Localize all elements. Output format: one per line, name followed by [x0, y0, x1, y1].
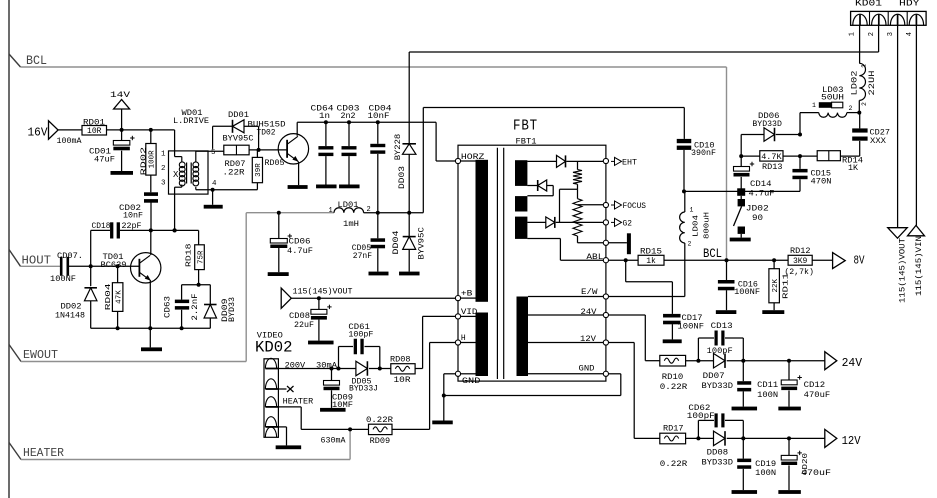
svg-text:RD11: RD11 — [782, 272, 790, 299]
svg-text:2: 2 — [688, 240, 692, 247]
svg-text:47K: 47K — [115, 290, 123, 304]
svg-text:2: 2 — [861, 102, 868, 106]
svg-text:2: 2 — [849, 105, 853, 112]
svg-text:HOUT: HOUT — [22, 254, 52, 268]
svg-text:100R: 100R — [149, 150, 157, 169]
svg-text:1: 1 — [690, 207, 694, 214]
svg-text:RD05: RD05 — [265, 159, 285, 168]
svg-text:RD13: RD13 — [762, 163, 783, 172]
svg-text:CD19: CD19 — [755, 460, 776, 469]
svg-text:4.7uF: 4.7uF — [287, 247, 313, 256]
svg-text:CD06: CD06 — [289, 238, 311, 247]
svg-text:CD11: CD11 — [757, 381, 778, 390]
svg-text:12V: 12V — [842, 435, 861, 448]
svg-text:16V: 16V — [28, 127, 48, 140]
svg-text:470N: 470N — [811, 178, 832, 187]
svg-text:RD02: RD02 — [140, 147, 148, 176]
svg-text:100NF: 100NF — [50, 275, 76, 284]
svg-text:RD15: RD15 — [640, 248, 662, 257]
svg-text:RD10: RD10 — [662, 373, 684, 382]
svg-text:115(145)VOUT: 115(145)VOUT — [898, 238, 908, 303]
svg-text:24V: 24V — [581, 308, 597, 317]
svg-text:22pF: 22pF — [122, 222, 142, 231]
svg-text:BYD33D: BYD33D — [752, 120, 782, 129]
svg-text:HEATER: HEATER — [23, 446, 64, 460]
svg-text:JD02: JD02 — [746, 205, 769, 214]
svg-text:H: H — [461, 334, 466, 343]
svg-text:RD04: RD04 — [105, 283, 113, 311]
svg-text:5: 5 — [211, 149, 216, 157]
svg-text:X: X — [173, 170, 179, 180]
svg-text:1: 1 — [849, 32, 857, 36]
svg-text:100N: 100N — [755, 469, 776, 478]
svg-text:EWOUT: EWOUT — [23, 348, 58, 362]
svg-text:0.22R: 0.22R — [366, 416, 393, 425]
svg-text:RD18: RD18 — [186, 244, 194, 268]
svg-text:BY228: BY228 — [394, 134, 403, 161]
svg-text:CD14: CD14 — [750, 180, 772, 189]
svg-text:10R: 10R — [394, 376, 411, 385]
svg-text:1k: 1k — [646, 257, 656, 266]
svg-text:100mA: 100mA — [57, 137, 82, 146]
svg-text:22UH: 22UH — [868, 70, 877, 95]
svg-text:14V: 14V — [110, 91, 130, 100]
svg-text:L.DRIVE: L.DRIVE — [173, 117, 209, 126]
svg-text:GND: GND — [462, 377, 481, 386]
svg-text:100N: 100N — [757, 391, 778, 400]
svg-text:27nF: 27nF — [353, 252, 372, 261]
svg-text:470uF: 470uF — [801, 469, 831, 478]
svg-text:1K: 1K — [848, 164, 858, 173]
svg-text:100NF: 100NF — [734, 288, 760, 297]
svg-text:G2: G2 — [623, 219, 633, 228]
svg-text:10R: 10R — [87, 127, 102, 136]
svg-text:2.2nF: 2.2nF — [191, 293, 200, 320]
svg-text:1: 1 — [812, 102, 816, 109]
svg-text:TD02: TD02 — [257, 129, 276, 138]
svg-text:GND: GND — [579, 365, 595, 374]
svg-text:90: 90 — [752, 214, 763, 223]
svg-text:390nF: 390nF — [691, 149, 716, 158]
svg-text:1mH: 1mH — [343, 220, 359, 229]
svg-text:75R: 75R — [197, 250, 205, 264]
svg-text:2: 2 — [868, 32, 876, 36]
svg-text:DD04: DD04 — [392, 230, 401, 254]
svg-text:BYD33J: BYD33J — [349, 385, 378, 394]
svg-text:BYD33D: BYD33D — [702, 459, 734, 468]
svg-text:1: 1 — [329, 207, 333, 215]
svg-text:24V: 24V — [842, 357, 863, 370]
svg-text:2: 2 — [161, 165, 166, 173]
svg-text:22K: 22K — [772, 279, 780, 293]
svg-text:VID: VID — [461, 308, 478, 317]
svg-text:1n: 1n — [319, 112, 330, 121]
svg-text:BYV95C: BYV95C — [418, 227, 427, 260]
svg-text:10nF: 10nF — [123, 211, 143, 220]
svg-text:DD03: DD03 — [398, 166, 407, 189]
svg-text:1: 1 — [861, 64, 868, 68]
svg-text:8V: 8V — [854, 255, 865, 268]
svg-text:CD08: CD08 — [289, 312, 310, 321]
svg-text:3: 3 — [161, 180, 166, 188]
svg-text:22uF: 22uF — [294, 321, 314, 330]
svg-text:100pF: 100pF — [348, 331, 373, 340]
svg-text:HEATER: HEATER — [283, 398, 314, 407]
svg-text:800uH: 800uH — [704, 212, 712, 239]
svg-text:4.7uF: 4.7uF — [749, 190, 775, 199]
svg-text:FOCUS: FOCUS — [623, 202, 647, 211]
svg-text:1N4148: 1N4148 — [55, 312, 85, 321]
svg-text:4: 4 — [906, 32, 914, 36]
svg-text:100pF: 100pF — [707, 347, 733, 356]
svg-text:100NF: 100NF — [678, 323, 705, 332]
svg-text:KD02: KD02 — [255, 339, 293, 357]
svg-text:4: 4 — [212, 180, 217, 188]
svg-text:EHT: EHT — [622, 158, 637, 167]
svg-text:115(145)VOUT: 115(145)VOUT — [293, 288, 353, 297]
svg-text:10nF: 10nF — [368, 112, 390, 121]
svg-text:4.7K: 4.7K — [761, 152, 782, 162]
svg-text:47uF: 47uF — [94, 156, 115, 165]
svg-text:BCL: BCL — [703, 247, 722, 261]
svg-text:630mA: 630mA — [321, 437, 346, 446]
svg-text:BYD33: BYD33 — [228, 297, 237, 322]
svg-text:RD17: RD17 — [663, 425, 684, 434]
svg-text:DD07: DD07 — [703, 372, 725, 381]
svg-text:115(145)VIN: 115(145)VIN — [914, 236, 924, 296]
svg-text:+B: +B — [461, 290, 473, 299]
svg-text:50UH: 50UH — [821, 94, 844, 103]
svg-text:CD07.: CD07. — [57, 252, 83, 261]
svg-text:CD13: CD13 — [711, 322, 733, 331]
svg-text:E/W: E/W — [581, 288, 598, 297]
svg-text:DD02: DD02 — [61, 303, 82, 312]
svg-text:FBT: FBT — [513, 119, 538, 135]
svg-text:BYD33D: BYD33D — [702, 382, 734, 391]
svg-text:LD04: LD04 — [693, 214, 701, 237]
svg-text:DD01: DD01 — [228, 111, 249, 120]
svg-text:0.22R: 0.22R — [660, 460, 688, 469]
svg-text:RD12: RD12 — [790, 247, 811, 256]
svg-text:CD63: CD63 — [164, 296, 173, 318]
svg-text:470uF: 470uF — [804, 391, 831, 400]
svg-text:BYV95C: BYV95C — [223, 134, 254, 143]
svg-text:HDY: HDY — [899, 0, 920, 9]
svg-text:KD01: KD01 — [855, 0, 882, 9]
svg-text:BCL: BCL — [26, 54, 47, 68]
svg-text:BC639: BC639 — [101, 261, 127, 270]
svg-text:RD09: RD09 — [370, 437, 391, 446]
svg-text:0.22R: 0.22R — [660, 383, 688, 392]
svg-text:CD12: CD12 — [804, 381, 826, 390]
svg-text:100pF: 100pF — [687, 412, 715, 421]
svg-text:3: 3 — [887, 32, 895, 36]
svg-text:DD08: DD08 — [707, 449, 729, 458]
svg-text:39R: 39R — [255, 163, 263, 177]
svg-text:CD18: CD18 — [92, 222, 111, 231]
svg-text:1: 1 — [161, 150, 166, 158]
svg-text:3K9: 3K9 — [793, 257, 808, 266]
svg-text:2n2: 2n2 — [341, 112, 356, 121]
svg-text:.22R: .22R — [223, 169, 245, 178]
svg-text:LD02: LD02 — [850, 70, 859, 95]
svg-text:XXX: XXX — [870, 137, 886, 146]
